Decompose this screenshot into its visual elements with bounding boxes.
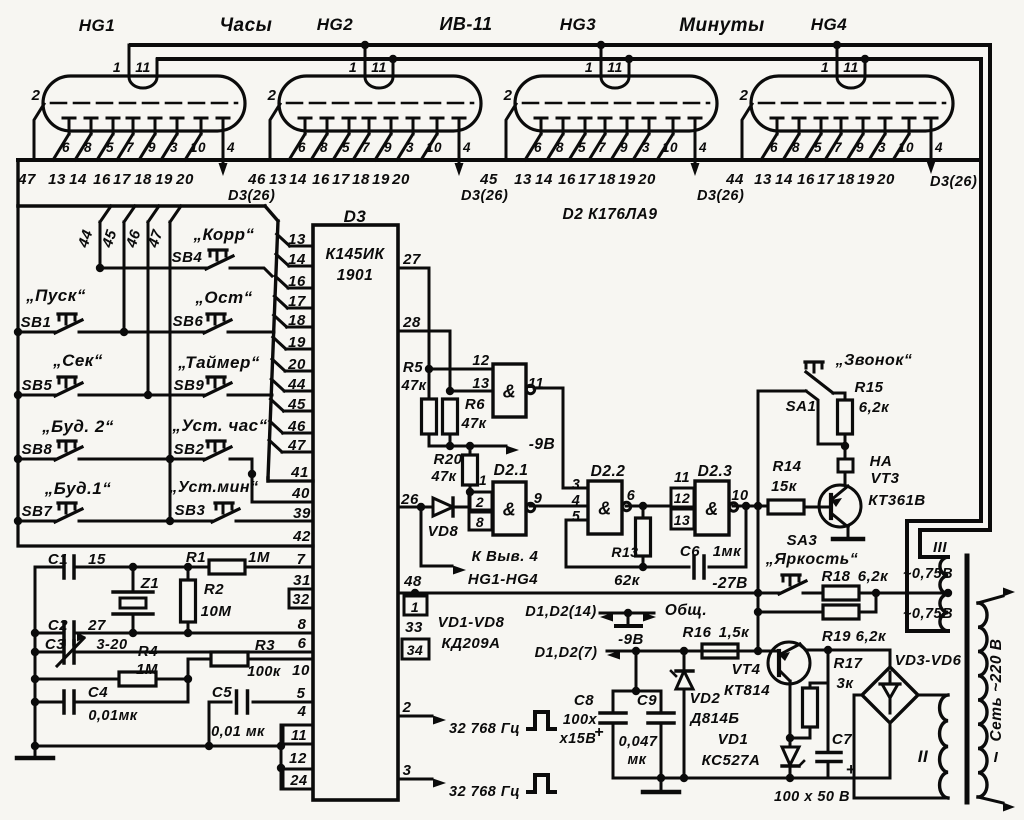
svg-text:7: 7 bbox=[297, 551, 306, 568]
svg-text:&: & bbox=[503, 500, 517, 520]
svg-text:13: 13 bbox=[674, 512, 691, 528]
svg-text:20: 20 bbox=[175, 171, 194, 188]
svg-text:3к: 3к bbox=[837, 675, 855, 692]
svg-text:SA3: SA3 bbox=[787, 532, 818, 549]
junction SB1/45 bbox=[120, 328, 128, 336]
junction rail SB8 bbox=[14, 455, 22, 463]
svg-text:R20: R20 bbox=[433, 451, 462, 468]
wire column 46 bbox=[148, 206, 159, 222]
svg-text:18: 18 bbox=[352, 171, 370, 188]
svg-text:„Яркость“: „Яркость“ bbox=[765, 551, 858, 568]
svg-text:С7: С7 bbox=[832, 731, 852, 748]
svg-text:16: 16 bbox=[288, 273, 306, 290]
svg-text:VD1: VD1 bbox=[718, 731, 749, 748]
svg-text:6: 6 bbox=[62, 140, 70, 155]
svg-text:47к: 47к bbox=[431, 469, 457, 485]
svg-text:7: 7 bbox=[362, 140, 371, 155]
svg-text:32 768 Гц: 32 768 Гц bbox=[449, 721, 520, 737]
svg-text:D3(26): D3(26) bbox=[697, 188, 744, 204]
svg-text:62к: 62к bbox=[614, 572, 641, 589]
svg-text:47: 47 bbox=[17, 171, 36, 188]
svg-text:2: 2 bbox=[267, 87, 277, 104]
svg-text:7: 7 bbox=[834, 140, 843, 155]
svg-text:„Уст.мин“: „Уст.мин“ bbox=[168, 479, 258, 496]
capacitor C4 bbox=[35, 701, 63, 704]
winding I primary bbox=[978, 603, 987, 797]
ground bottom bbox=[660, 778, 663, 790]
VFD tube HG1 (ИВ-11) bbox=[31, 45, 245, 162]
svg-text:~0,75В: ~0,75В bbox=[903, 566, 953, 582]
wire bridge bottom to common row bbox=[889, 723, 892, 778]
VFD tube HG3 bbox=[503, 41, 717, 162]
svg-text:R5: R5 bbox=[403, 359, 423, 376]
wire SA1 feed bbox=[758, 390, 806, 393]
svg-text:„Буд. 2“: „Буд. 2“ bbox=[41, 417, 114, 436]
capacitor C9 bbox=[660, 691, 663, 712]
svg-text:Общ.: Общ. bbox=[665, 602, 707, 619]
wire -9V row (D1,D2(7)) bbox=[607, 650, 768, 653]
svg-text:„Уст. час“: „Уст. час“ bbox=[171, 416, 267, 435]
boxed pin 11 bbox=[283, 725, 313, 744]
wire column 47 bbox=[170, 206, 181, 222]
svg-text:С3: С3 bbox=[45, 636, 65, 653]
wire row to bridge top bbox=[889, 650, 892, 667]
svg-text:VD3-VD6: VD3-VD6 bbox=[895, 652, 962, 669]
junction SB8/47 bbox=[166, 455, 174, 463]
svg-text:SB9: SB9 bbox=[174, 377, 205, 394]
svg-text:47к: 47к bbox=[401, 378, 427, 394]
svg-text:12: 12 bbox=[289, 750, 307, 767]
svg-text:Z1: Z1 bbox=[140, 575, 160, 592]
svg-text:SB2: SB2 bbox=[174, 441, 205, 458]
svg-text:11: 11 bbox=[674, 470, 690, 486]
svg-text:5: 5 bbox=[342, 140, 350, 155]
svg-text:С6: С6 bbox=[680, 543, 700, 560]
wire input 13 row bbox=[450, 390, 493, 393]
wire VT4 emitter row bbox=[800, 644, 806, 650]
boxed pin 1 bbox=[404, 596, 427, 615]
svg-text:100к: 100к bbox=[247, 664, 281, 680]
svg-text:12: 12 bbox=[674, 490, 691, 506]
wire bottom common row bbox=[613, 777, 890, 780]
quartz Z1 bbox=[129, 563, 137, 571]
svg-text:R3: R3 bbox=[255, 637, 275, 654]
winding III bbox=[940, 557, 948, 631]
svg-text:D3(26): D3(26) bbox=[228, 188, 275, 204]
svg-text:„Сек“: „Сек“ bbox=[52, 351, 103, 370]
wire pin 26 row bbox=[398, 506, 433, 509]
wire right vertical from top bus bbox=[920, 45, 990, 557]
svg-text:13: 13 bbox=[288, 231, 306, 248]
svg-text:11: 11 bbox=[607, 59, 623, 75]
svg-text:С9: С9 bbox=[637, 692, 657, 709]
VFD tube HG2 bbox=[267, 41, 481, 162]
svg-text:HG2: HG2 bbox=[317, 15, 354, 34]
svg-text:VD8: VD8 bbox=[428, 523, 459, 540]
svg-text:11: 11 bbox=[135, 59, 151, 75]
svg-text:4: 4 bbox=[226, 140, 235, 155]
wire pin 48 row bbox=[398, 592, 779, 595]
svg-text:D2.1: D2.1 bbox=[494, 462, 529, 479]
wire pin 28 bbox=[398, 331, 450, 391]
zener VD1 bbox=[789, 738, 792, 747]
svg-text:D2 К176ЛА9: D2 К176ЛА9 bbox=[563, 206, 658, 223]
svg-text:-9В: -9В bbox=[618, 631, 644, 648]
svg-text:6: 6 bbox=[298, 140, 306, 155]
wire pins 11-24 bracket bbox=[280, 725, 283, 789]
capacitor C3 trimmer bbox=[35, 651, 63, 654]
svg-text:7: 7 bbox=[126, 140, 135, 155]
wire band top line bbox=[18, 158, 978, 162]
wire filament bus pin11 bbox=[158, 57, 981, 61]
svg-text:32: 32 bbox=[292, 592, 309, 608]
svg-text:31: 31 bbox=[293, 572, 311, 589]
svg-text:26: 26 bbox=[400, 491, 419, 508]
svg-text:0,047: 0,047 bbox=[619, 734, 658, 750]
resistor R18 bbox=[823, 586, 859, 600]
svg-text:6,2к: 6,2к bbox=[859, 399, 890, 416]
boxed pin 34 bbox=[402, 639, 429, 659]
wire band bottom line bbox=[18, 204, 265, 207]
svg-text:10: 10 bbox=[292, 662, 310, 679]
svg-text:R6: R6 bbox=[465, 396, 485, 413]
svg-text:„Звонок“: „Звонок“ bbox=[835, 352, 913, 369]
winding II bbox=[940, 695, 948, 798]
svg-text:3: 3 bbox=[572, 477, 581, 493]
svg-text:С5: С5 bbox=[212, 684, 232, 701]
svg-text:16: 16 bbox=[558, 171, 576, 188]
switch SA3 bbox=[779, 581, 806, 594]
wire IC left pin bus bbox=[268, 221, 278, 478]
svg-text:19: 19 bbox=[618, 171, 636, 188]
junction rail SB5 bbox=[14, 391, 22, 399]
svg-text:32 768 Гц: 32 768 Гц bbox=[449, 784, 520, 800]
svg-text:1М: 1М bbox=[136, 661, 158, 678]
NAND gate D2.2 bbox=[588, 481, 622, 534]
svg-text:5: 5 bbox=[572, 509, 581, 525]
svg-text:SA1: SA1 bbox=[786, 398, 817, 415]
svg-text:HG3: HG3 bbox=[560, 15, 597, 34]
svg-text:10: 10 bbox=[426, 140, 442, 155]
svg-text:х15В: х15В bbox=[559, 731, 597, 747]
svg-text:10: 10 bbox=[190, 140, 206, 155]
svg-text:47к: 47к bbox=[461, 416, 487, 432]
svg-text:11: 11 bbox=[371, 59, 387, 75]
svg-text:1М: 1М bbox=[248, 549, 270, 566]
svg-text:Сеть ~220 В: Сеть ~220 В bbox=[988, 638, 1005, 741]
svg-text:&: & bbox=[503, 382, 517, 402]
svg-text:20: 20 bbox=[391, 171, 410, 188]
svg-text:18: 18 bbox=[837, 171, 855, 188]
svg-text:6: 6 bbox=[770, 140, 778, 155]
svg-text:13: 13 bbox=[48, 171, 66, 188]
svg-text:мк: мк bbox=[627, 752, 646, 768]
junction SB7/47 bbox=[166, 517, 174, 525]
svg-text:0,01 мк: 0,01 мк bbox=[211, 724, 265, 740]
pulse symbol 2 bbox=[528, 775, 555, 792]
svg-text:17: 17 bbox=[817, 171, 835, 188]
svg-text:3: 3 bbox=[642, 140, 650, 155]
svg-text:1901: 1901 bbox=[337, 267, 373, 284]
wire -9V feed bbox=[429, 445, 506, 448]
svg-text:4: 4 bbox=[571, 493, 581, 509]
svg-text:18: 18 bbox=[134, 171, 152, 188]
wire common bottom bbox=[35, 745, 281, 748]
svg-text:„Таймер“: „Таймер“ bbox=[177, 353, 260, 372]
svg-text:1: 1 bbox=[411, 599, 419, 615]
svg-text:27: 27 bbox=[87, 617, 106, 634]
wire SA1 to R15 top bbox=[833, 392, 845, 395]
wire pin 27 bbox=[398, 268, 429, 369]
capacitor C7 bbox=[827, 683, 830, 752]
pulse symbol 1 bbox=[528, 712, 555, 729]
svg-text:100х: 100х bbox=[563, 712, 598, 728]
svg-text:18: 18 bbox=[288, 312, 306, 329]
svg-text:1: 1 bbox=[349, 59, 357, 75]
svg-text:11: 11 bbox=[528, 376, 544, 392]
svg-text:-9В: -9В bbox=[529, 436, 555, 453]
capacitor C6 bbox=[643, 566, 689, 569]
arrow to D3 pin 26 bbox=[222, 162, 225, 166]
svg-text:28: 28 bbox=[402, 314, 421, 331]
svg-text:47: 47 bbox=[287, 437, 306, 454]
junction rail SB7 bbox=[14, 517, 22, 525]
svg-text:1мк: 1мк bbox=[713, 543, 742, 560]
svg-text:42: 42 bbox=[292, 528, 311, 545]
svg-text:R4: R4 bbox=[138, 643, 158, 660]
wire tap to winding III bbox=[876, 592, 948, 595]
svg-text:Д814Б: Д814Б bbox=[689, 710, 740, 727]
wire funnel diagonal to IC pin bus bbox=[265, 206, 278, 221]
svg-text:33: 33 bbox=[405, 619, 423, 636]
capacitor C8 bbox=[612, 691, 615, 712]
svg-text:12: 12 bbox=[472, 353, 489, 369]
svg-text:D2.2: D2.2 bbox=[591, 463, 626, 480]
boxed pin 24 bbox=[283, 769, 313, 789]
svg-text:20: 20 bbox=[876, 171, 895, 188]
wire D2.1 out to D2.2 in4 bbox=[530, 505, 588, 508]
svg-text:VD1-VD8: VD1-VD8 bbox=[438, 614, 505, 631]
svg-text:46: 46 bbox=[247, 171, 266, 188]
svg-text:1: 1 bbox=[585, 59, 593, 75]
junction SB2 path bbox=[248, 470, 256, 478]
svg-text:С4: С4 bbox=[88, 684, 108, 701]
svg-text:40: 40 bbox=[291, 485, 310, 502]
wire mains top bbox=[978, 596, 1003, 603]
wire band left edge bbox=[16, 160, 19, 206]
svg-text:17: 17 bbox=[113, 171, 131, 188]
NAND gate D2.1 bbox=[493, 482, 526, 535]
bridge rectifier VD3-VD6 bbox=[862, 667, 918, 723]
wire to tubes pin 4 bbox=[420, 507, 423, 566]
svg-text:10: 10 bbox=[731, 488, 748, 504]
svg-text:9: 9 bbox=[620, 140, 628, 155]
boxed input 13 bbox=[671, 509, 694, 529]
svg-text:1: 1 bbox=[821, 59, 829, 75]
resistor R4 bbox=[35, 678, 119, 681]
resistor R16 bbox=[702, 644, 738, 658]
svg-text:5: 5 bbox=[106, 140, 114, 155]
svg-text:КТ361В: КТ361В bbox=[868, 492, 925, 509]
capacitor C1 bbox=[35, 566, 63, 569]
svg-text:D3: D3 bbox=[344, 207, 367, 226]
svg-text:4: 4 bbox=[297, 703, 307, 720]
transistor VT3 КТ361В bbox=[819, 485, 861, 527]
resistor R2 bbox=[184, 563, 192, 571]
resistor R1 bbox=[186, 566, 209, 569]
junction SB5/46 bbox=[144, 391, 152, 399]
svg-text:2: 2 bbox=[475, 494, 484, 510]
svg-text:Минуты: Минуты bbox=[679, 15, 765, 36]
svg-text:8: 8 bbox=[556, 140, 564, 155]
svg-text:D3(26): D3(26) bbox=[930, 174, 977, 190]
boxed input 12 bbox=[671, 488, 694, 507]
svg-text:6: 6 bbox=[298, 635, 307, 652]
junction К Выв tap bbox=[417, 503, 425, 511]
svg-text:SB4: SB4 bbox=[172, 249, 203, 266]
svg-text:+: + bbox=[594, 724, 604, 741]
resistor R14 bbox=[768, 500, 804, 514]
svg-text:16: 16 bbox=[93, 171, 111, 188]
svg-text:HG1-HG4: HG1-HG4 bbox=[468, 571, 538, 588]
svg-text:HG1: HG1 bbox=[79, 16, 115, 35]
switch SA1 bbox=[806, 372, 833, 393]
resistor R3 bbox=[187, 659, 190, 679]
svg-text:3: 3 bbox=[403, 762, 412, 779]
svg-text:13: 13 bbox=[269, 171, 287, 188]
transformer core bbox=[965, 556, 970, 802]
svg-text:VD2: VD2 bbox=[690, 690, 721, 707]
svg-text:5: 5 bbox=[297, 685, 306, 702]
svg-text:19: 19 bbox=[372, 171, 390, 188]
resistor R17 bbox=[827, 650, 830, 683]
svg-text:HG4: HG4 bbox=[811, 15, 848, 34]
svg-text:II: II bbox=[918, 747, 929, 766]
svg-text:8: 8 bbox=[476, 514, 484, 530]
svg-text:11: 11 bbox=[843, 59, 859, 75]
wire VT4 collector bbox=[789, 681, 792, 738]
svg-text:D1,D2(14): D1,D2(14) bbox=[525, 604, 596, 620]
wire C8C9 riser bbox=[635, 651, 638, 691]
svg-text:8: 8 bbox=[298, 616, 307, 633]
svg-text:2: 2 bbox=[739, 87, 749, 104]
ground osc rail bbox=[34, 746, 37, 757]
wire SA1 bypass bbox=[806, 391, 845, 444]
svg-text:100 x 50 В: 100 x 50 В bbox=[774, 789, 850, 805]
boxed pin 32 bbox=[289, 589, 313, 608]
svg-text:7: 7 bbox=[598, 140, 607, 155]
svg-text:8: 8 bbox=[84, 140, 92, 155]
wires IC pin taps 13-47 bbox=[277, 234, 290, 246]
wire input 12 row bbox=[429, 368, 493, 371]
svg-text:6: 6 bbox=[627, 488, 636, 504]
svg-text:„Корр“: „Корр“ bbox=[193, 225, 255, 244]
svg-text:VT3: VT3 bbox=[870, 470, 899, 487]
svg-text:46: 46 bbox=[287, 418, 306, 435]
svg-text:VT4: VT4 bbox=[731, 661, 760, 678]
resistor R5 bbox=[428, 369, 431, 399]
wire column 44 bbox=[100, 206, 111, 222]
svg-text:17: 17 bbox=[332, 171, 350, 188]
svg-text:С2: С2 bbox=[48, 617, 68, 634]
svg-text:14: 14 bbox=[288, 251, 306, 268]
wire pin 3 output bbox=[398, 778, 432, 781]
wire bridge left to bottom bbox=[854, 695, 948, 798]
svg-text:4: 4 bbox=[934, 140, 943, 155]
svg-text:С1: С1 bbox=[48, 551, 68, 568]
buzzer HA bbox=[838, 459, 853, 472]
capacitor C2 bbox=[35, 632, 63, 635]
svg-text:I: I bbox=[994, 749, 999, 766]
resistor R19 bbox=[823, 605, 859, 619]
svg-text:9: 9 bbox=[856, 140, 864, 155]
svg-text:R2: R2 bbox=[204, 581, 224, 598]
svg-text:11: 11 bbox=[291, 728, 307, 744]
svg-text:13: 13 bbox=[514, 171, 532, 188]
svg-text:5: 5 bbox=[814, 140, 822, 155]
svg-text:5: 5 bbox=[578, 140, 586, 155]
wire R19 branch bbox=[758, 611, 823, 614]
svg-text:КД209А: КД209А bbox=[442, 635, 501, 652]
svg-text:&: & bbox=[705, 499, 719, 519]
svg-text:6: 6 bbox=[534, 140, 542, 155]
arrow to D3 pin 26 bbox=[458, 162, 461, 166]
resistor R20 bbox=[469, 446, 472, 455]
svg-text:13: 13 bbox=[754, 171, 772, 188]
svg-text:ИВ-11: ИВ-11 bbox=[439, 14, 492, 34]
svg-text:10: 10 bbox=[662, 140, 678, 155]
svg-text:R16: R16 bbox=[682, 624, 711, 641]
svg-text:9: 9 bbox=[148, 140, 156, 155]
svg-text:14: 14 bbox=[535, 171, 553, 188]
svg-text:НА: НА bbox=[870, 453, 893, 470]
svg-text:R14: R14 bbox=[772, 458, 801, 475]
wire Общ link bbox=[600, 612, 654, 615]
svg-text:2: 2 bbox=[31, 87, 41, 104]
svg-text:1: 1 bbox=[479, 472, 487, 488]
boxed input 8 bbox=[469, 512, 492, 530]
wire D2.2 out row bbox=[626, 505, 671, 508]
tap tee -9V bbox=[627, 613, 630, 625]
NAND gate D2.3 bbox=[695, 481, 729, 535]
svg-text:R18: R18 bbox=[821, 568, 850, 585]
svg-text:КТ814: КТ814 bbox=[724, 682, 770, 699]
junction rail SB1 bbox=[14, 328, 22, 336]
svg-text:R13: R13 bbox=[611, 544, 638, 560]
wire D2.2 input 5 loop bbox=[566, 520, 643, 567]
svg-text:8: 8 bbox=[792, 140, 800, 155]
svg-text:1,5к: 1,5к bbox=[719, 624, 750, 641]
svg-text:Часы: Часы bbox=[220, 15, 273, 36]
svg-text:SB6: SB6 bbox=[173, 313, 204, 330]
resistor R13 bbox=[642, 506, 645, 518]
svg-text:19: 19 bbox=[288, 334, 306, 351]
svg-text:3: 3 bbox=[878, 140, 886, 155]
svg-text:3: 3 bbox=[170, 140, 178, 155]
svg-text:К Выв. 4: К Выв. 4 bbox=[472, 548, 539, 565]
junction winding III tap bbox=[944, 589, 952, 597]
svg-text:SB1: SB1 bbox=[21, 314, 52, 331]
svg-text:16: 16 bbox=[312, 171, 330, 188]
svg-text:КС527А: КС527А bbox=[702, 752, 761, 769]
svg-text:24: 24 bbox=[289, 773, 307, 789]
svg-text:15к: 15к bbox=[771, 478, 798, 495]
svg-text:3: 3 bbox=[406, 140, 414, 155]
wire D2.3 out row bbox=[733, 505, 768, 508]
svg-text:SB3: SB3 bbox=[175, 502, 206, 519]
svg-text:44: 44 bbox=[725, 171, 744, 188]
VFD tube HG4 bbox=[739, 41, 953, 162]
